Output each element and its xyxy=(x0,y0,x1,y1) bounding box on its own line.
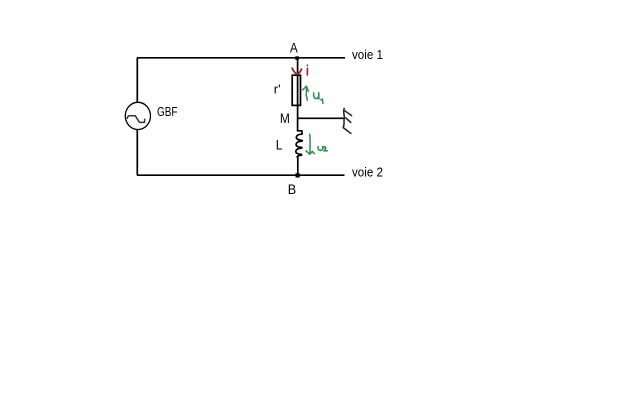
label u1 (green) xyxy=(314,93,323,104)
voltage arrow u2 (green, down) xyxy=(306,134,315,154)
svg-text:r': r' xyxy=(274,82,281,97)
wire M to ground xyxy=(298,117,345,119)
wire middle vertical A-resistor-M xyxy=(297,58,299,131)
ground symbol xyxy=(343,109,351,134)
svg-text:A: A xyxy=(290,40,298,55)
wire left vertical xyxy=(136,58,138,175)
GBF sine squiggle xyxy=(127,116,144,123)
svg-text:voie 2: voie 2 xyxy=(352,165,383,180)
GBF source circle xyxy=(125,102,150,129)
svg-text:voie 1: voie 1 xyxy=(352,47,383,62)
label u2 (green) xyxy=(318,146,327,151)
wire inductor bottom to B xyxy=(297,158,299,176)
wire top (A to voie 1 rail) xyxy=(137,57,345,59)
wire bottom (B to voie 2 rail) xyxy=(137,174,345,176)
node A xyxy=(295,56,299,60)
inductor L coil xyxy=(296,131,303,158)
svg-text:L: L xyxy=(276,137,283,152)
svg-text:M: M xyxy=(280,111,290,126)
svg-text:B: B xyxy=(288,182,296,197)
svg-text:GBF: GBF xyxy=(157,104,178,119)
label i (red) xyxy=(306,65,308,75)
node B xyxy=(296,173,300,177)
resistor r' body xyxy=(292,75,300,105)
voltage arrow u1 (green, up) xyxy=(303,86,309,100)
current arrow i (red) xyxy=(292,68,301,74)
